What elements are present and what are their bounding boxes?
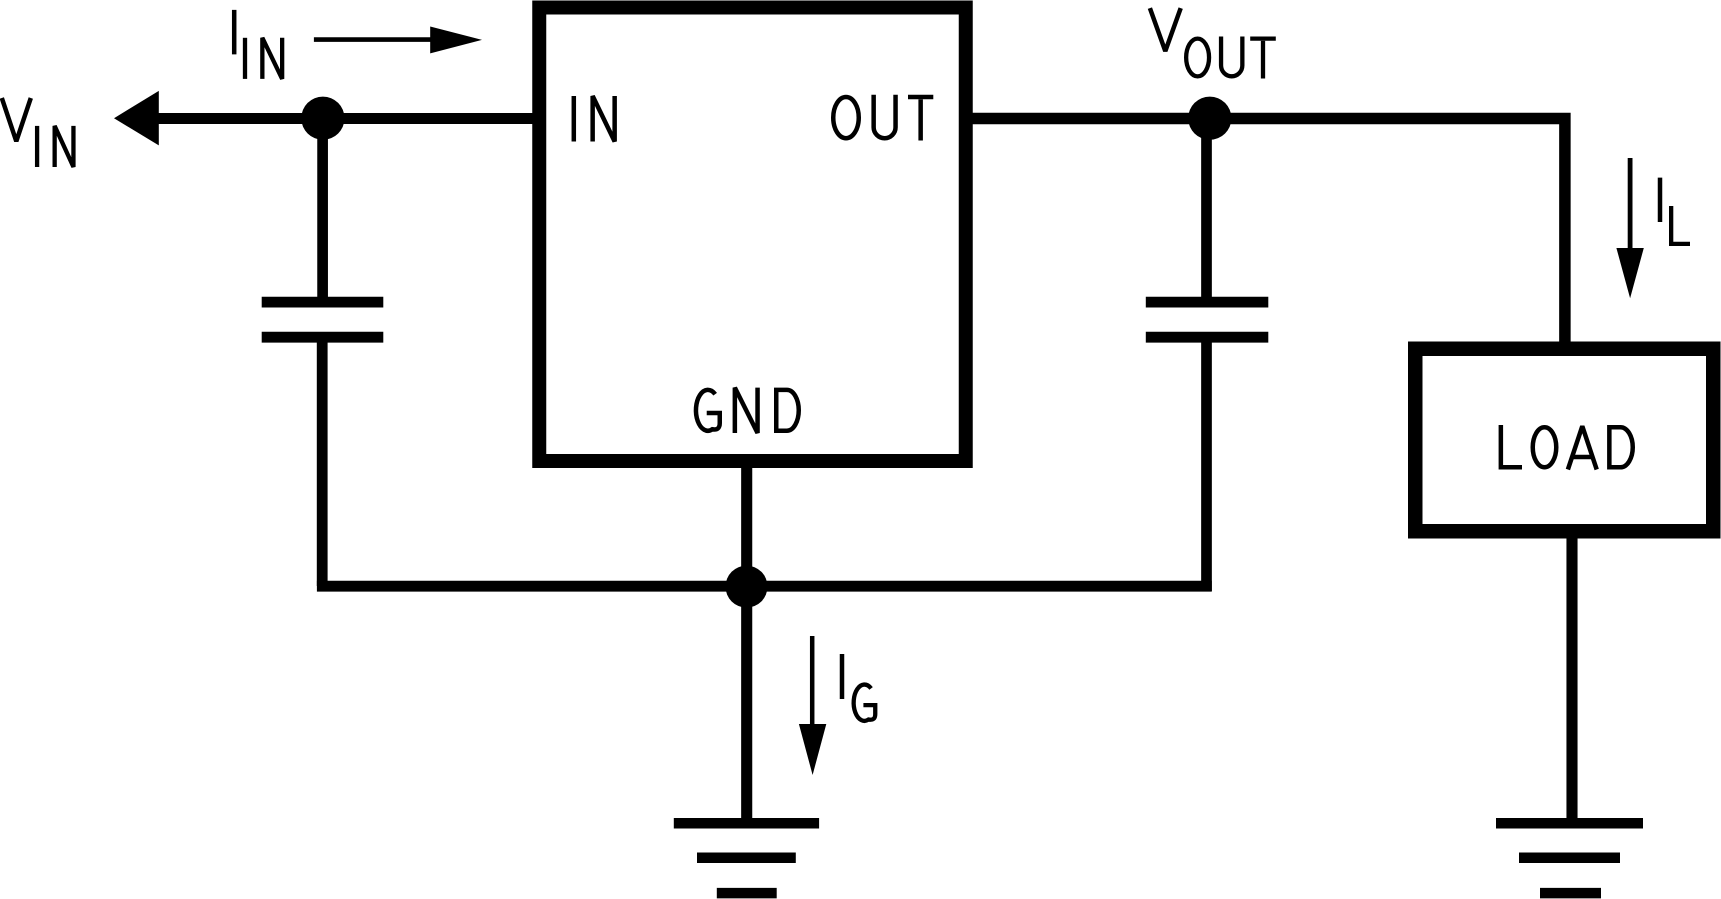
node GND junction dot — [726, 566, 768, 608]
wire regulator GND pin lead — [741, 459, 752, 823]
pin label GND — [696, 388, 799, 433]
block label LOAD — [1501, 425, 1633, 470]
current arrow IL (points down) — [1616, 158, 1643, 298]
capacitor COUT top lead — [1201, 118, 1212, 300]
current arrow IG (points down) — [799, 636, 826, 775]
arrowhead VIN (points left) — [114, 91, 159, 145]
capacitor COUT plates — [1146, 302, 1269, 337]
wire VOUT net (regulator OUT pin to load corner) — [972, 119, 1565, 346]
ground symbol at load — [1496, 823, 1643, 893]
ground symbol at regulator — [674, 823, 819, 893]
net label VIN — [2, 98, 74, 167]
pin label OUT — [833, 95, 933, 141]
net label VOUT — [1150, 8, 1276, 78]
wire load bottom lead — [1566, 531, 1577, 823]
capacitor COUT bottom lead — [1201, 340, 1212, 591]
current arrow IIN (points right) — [314, 27, 482, 54]
current label IIN — [234, 10, 282, 79]
capacitor CIN bottom lead — [317, 340, 328, 586]
current label IG — [842, 654, 875, 721]
capacitor CIN plates — [262, 302, 384, 337]
node VIN junction dot — [301, 97, 344, 140]
node VOUT junction dot — [1188, 97, 1231, 140]
current label IL — [1660, 178, 1690, 244]
capacitor CIN top lead — [317, 118, 328, 300]
load block LOAD box — [1415, 349, 1713, 532]
pin label IN — [574, 96, 615, 142]
wire ground bus (CIN bottom to COUT bottom) — [317, 581, 1212, 592]
wire VIN input net (arrow tail to regulator IN pin) — [156, 113, 533, 124]
regulator U1 box — [539, 8, 966, 462]
